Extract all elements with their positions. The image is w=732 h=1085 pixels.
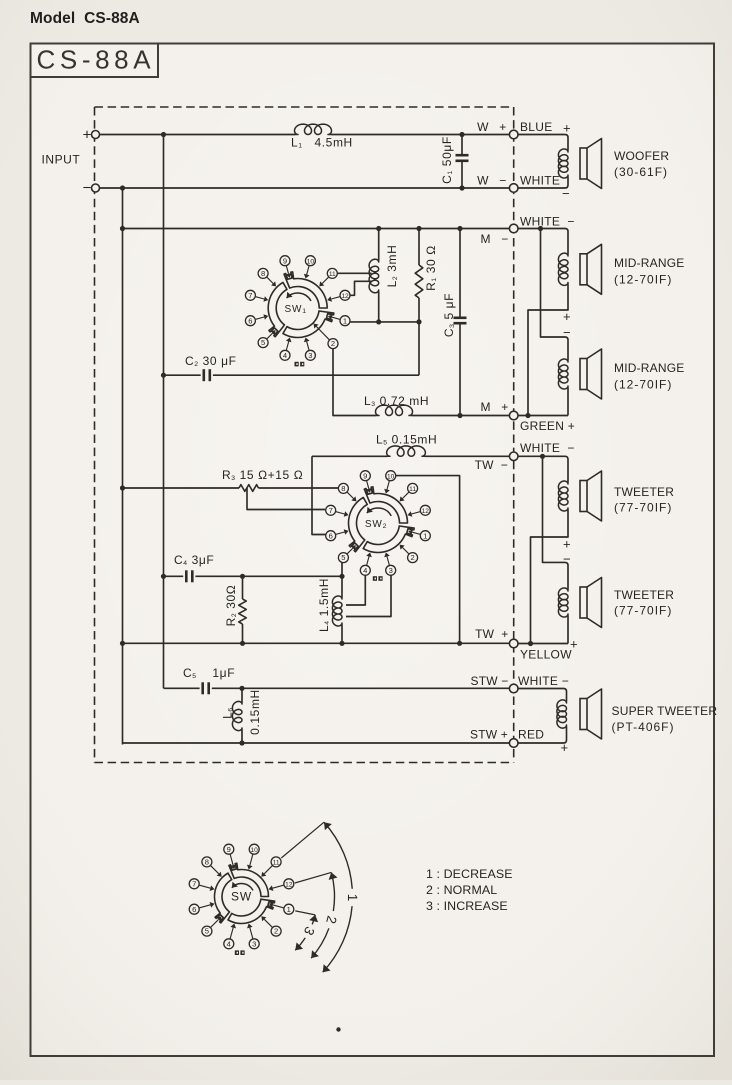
svg-text:(12-70IF): (12-70IF) xyxy=(614,378,672,392)
svg-text:WHITE −: WHITE − xyxy=(518,674,569,688)
svg-text:−: − xyxy=(83,180,92,197)
svg-text:6: 6 xyxy=(192,905,196,914)
svg-text:M +: M + xyxy=(480,400,508,414)
svg-text:(77-70IF): (77-70IF) xyxy=(614,501,672,515)
svg-text:INPUT: INPUT xyxy=(42,153,81,167)
svg-text:TWEETER: TWEETER xyxy=(614,588,674,602)
svg-text:+: + xyxy=(570,637,578,652)
svg-text:9: 9 xyxy=(227,845,231,854)
svg-text:WOOFER: WOOFER xyxy=(614,149,669,163)
svg-text:W +: W + xyxy=(477,120,506,134)
svg-text:5: 5 xyxy=(261,338,265,347)
svg-text:R2 30Ω: R2 30Ω xyxy=(224,585,238,627)
svg-text:(77-70IF): (77-70IF) xyxy=(614,604,672,618)
svg-text:6: 6 xyxy=(329,531,333,540)
svg-text:6: 6 xyxy=(248,316,252,325)
svg-text:+: + xyxy=(563,309,571,324)
svg-text:12: 12 xyxy=(422,508,430,515)
svg-text:M −: M − xyxy=(480,232,508,246)
svg-text:(12-70IF): (12-70IF) xyxy=(614,273,672,287)
svg-text:3: 3 xyxy=(308,351,312,360)
svg-text:WHITE: WHITE xyxy=(520,174,560,188)
svg-text:CS-88A: CS-88A xyxy=(37,45,156,75)
svg-text:MID-RANGE: MID-RANGE xyxy=(614,256,684,270)
svg-text:1 : DECREASE: 1 : DECREASE xyxy=(426,867,513,881)
svg-text:+: + xyxy=(563,537,571,552)
svg-text:7: 7 xyxy=(192,879,196,888)
svg-text:−: − xyxy=(562,186,570,201)
svg-text:STW +: STW + xyxy=(470,728,508,742)
svg-text:4: 4 xyxy=(363,566,367,575)
svg-text:4: 4 xyxy=(227,939,231,948)
svg-text:WHITE −: WHITE − xyxy=(520,215,575,229)
svg-text:4: 4 xyxy=(283,351,287,360)
svg-text:+: + xyxy=(560,740,568,755)
svg-text:8: 8 xyxy=(341,484,345,493)
svg-text:(30-61F): (30-61F) xyxy=(614,165,668,179)
svg-text:1: 1 xyxy=(345,894,360,902)
svg-text:0.15mH: 0.15mH xyxy=(248,689,262,735)
svg-text:11: 11 xyxy=(409,486,416,493)
svg-text:GREEN +: GREEN + xyxy=(520,419,575,433)
svg-text:C1 50μF: C1 50μF xyxy=(440,136,454,184)
svg-text:2 : NORMAL: 2 : NORMAL xyxy=(426,883,497,897)
svg-text:1: 1 xyxy=(343,316,347,325)
svg-text:+: + xyxy=(563,121,571,136)
svg-text:SW: SW xyxy=(231,889,252,903)
svg-text:5: 5 xyxy=(205,927,209,936)
svg-text:RED: RED xyxy=(518,728,544,742)
svg-text:3: 3 xyxy=(252,939,256,948)
svg-text:+: + xyxy=(83,127,92,144)
svg-text:2: 2 xyxy=(410,553,414,562)
svg-text:11: 11 xyxy=(273,860,280,867)
svg-text:2: 2 xyxy=(274,927,278,936)
svg-text:12: 12 xyxy=(341,293,349,300)
svg-text:W −: W − xyxy=(477,174,506,188)
svg-text:TWEETER: TWEETER xyxy=(614,485,674,499)
svg-text:Model CS-88A: Model CS-88A xyxy=(30,10,140,27)
svg-text:SUPER TWEETER: SUPER TWEETER xyxy=(612,704,718,718)
svg-text:C3 5 μF: C3 5 μF xyxy=(442,293,456,337)
svg-text:5: 5 xyxy=(341,553,345,562)
svg-text:9: 9 xyxy=(363,471,367,480)
svg-text:(PT-406F): (PT-406F) xyxy=(612,720,675,734)
svg-text:10: 10 xyxy=(251,847,259,854)
svg-text:YELLOW: YELLOW xyxy=(520,648,572,662)
svg-text:10: 10 xyxy=(387,473,395,480)
svg-text:3: 3 xyxy=(389,566,393,575)
svg-text:11: 11 xyxy=(329,271,336,278)
svg-text:MID-RANGE: MID-RANGE xyxy=(614,361,684,375)
svg-text:L2 3mH: L2 3mH xyxy=(385,245,399,288)
svg-text:C5 1μF: C5 1μF xyxy=(183,666,235,680)
svg-text:−: − xyxy=(563,552,571,567)
svg-text:8: 8 xyxy=(205,858,209,867)
svg-text:−: − xyxy=(563,325,571,340)
svg-text:C4 3μF: C4 3μF xyxy=(174,553,214,567)
svg-text:8: 8 xyxy=(261,269,265,278)
svg-text:9: 9 xyxy=(283,256,287,265)
svg-text:TW −: TW − xyxy=(475,458,508,472)
svg-text:10: 10 xyxy=(307,258,315,265)
svg-text:12: 12 xyxy=(285,881,293,888)
svg-text:R1 30 Ω: R1 30 Ω xyxy=(424,245,438,291)
svg-text:1: 1 xyxy=(423,531,427,540)
svg-text:STW −: STW − xyxy=(470,674,508,688)
svg-text:C2 30 μF: C2 30 μF xyxy=(185,354,237,368)
svg-text:TW +: TW + xyxy=(475,627,508,641)
svg-text:2: 2 xyxy=(331,339,335,348)
svg-text:7: 7 xyxy=(329,506,333,515)
svg-text:WHITE −: WHITE − xyxy=(520,441,575,455)
svg-text:BLUE: BLUE xyxy=(520,120,553,134)
svg-text:1: 1 xyxy=(287,905,291,914)
svg-text:7: 7 xyxy=(248,291,252,300)
svg-text:3 : INCREASE: 3 : INCREASE xyxy=(426,899,508,913)
